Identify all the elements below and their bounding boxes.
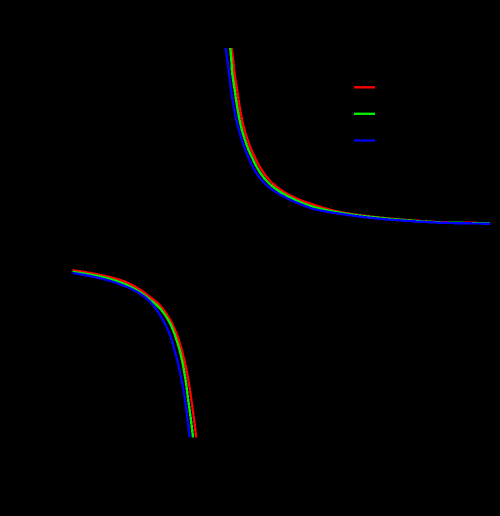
legend swatch blue <box>354 139 375 141</box>
curve 1 lower branch (red) <box>73 270 197 437</box>
curve 1 upper branch (red) <box>232 48 491 223</box>
curve 3 upper branch (blue) <box>226 48 490 224</box>
curve 2 upper branch (green) <box>230 48 490 223</box>
legend swatch red <box>354 86 375 88</box>
legend swatch green <box>354 113 375 115</box>
curve 3 lower branch (blue) <box>73 273 190 438</box>
curve 2 lower branch (green) <box>73 272 193 438</box>
